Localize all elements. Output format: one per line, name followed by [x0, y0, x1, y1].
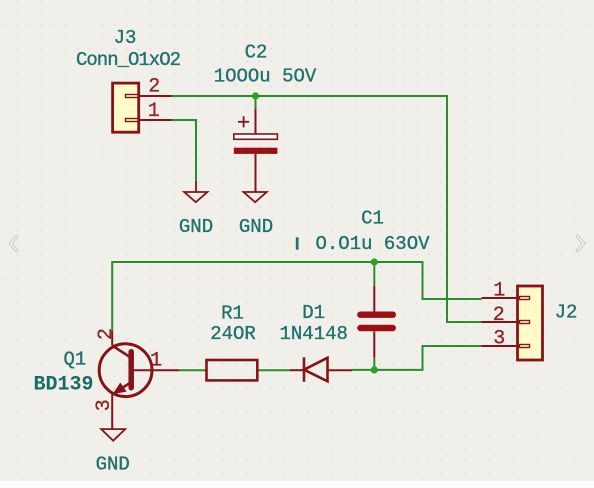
svg-text:2: 2 — [95, 328, 118, 340]
capacitor C1 bottom plate — [360, 325, 392, 331]
capacitor C2 plus sign — [238, 116, 249, 127]
svg-text:2: 2 — [493, 304, 505, 327]
svg-text:Conn_O1xO2: Conn_O1xO2 — [76, 49, 181, 71]
svg-text:GND: GND — [239, 216, 273, 238]
svg-text:1: 1 — [150, 350, 162, 373]
transistor Q1 collector pin — [111, 331, 113, 346]
svg-text:O.O1u 63OV: O.O1u 63OV — [315, 233, 430, 255]
ground symbol GND2 (from C2) — [244, 192, 267, 202]
capacitor C1 bottom pin — [373, 332, 375, 358]
wire: C2 top stub — [255, 96, 257, 109]
svg-text:C2: C2 — [245, 42, 268, 64]
transistor Q1 emitter pin — [111, 394, 113, 429]
connector J3 pin 2 stub — [126, 95, 139, 98]
wire: Q1 base to R1 — [179, 369, 207, 371]
capacitor C2 bottom pin — [255, 154, 257, 192]
connector J2 pin 2 lead — [482, 321, 518, 323]
diode D1 right pin — [328, 369, 353, 371]
svg-text:1N4148: 1N4148 — [279, 323, 347, 345]
capacitor C1 top plate — [360, 312, 392, 318]
wire: mid horizontal net — [112, 262, 481, 331]
connector J3 pin 2 lead — [139, 95, 172, 97]
connector J2 pin 1 stub — [520, 297, 530, 300]
wire: C1 bottom stub — [373, 357, 375, 370]
svg-text:2: 2 — [148, 76, 160, 99]
transistor Q1 collector diagonal — [112, 346, 130, 358]
svg-text:C1: C1 — [361, 208, 384, 230]
transistor Q1 emitter arrow — [114, 383, 126, 393]
capacitor C2 top pin — [255, 109, 257, 135]
capacitor C2 bottom plate — [234, 148, 278, 154]
svg-text:3: 3 — [93, 399, 116, 411]
connector J3 body — [113, 83, 139, 132]
svg-text:3: 3 — [493, 328, 505, 351]
junction at C2 top — [252, 92, 259, 99]
svg-text:GND: GND — [96, 454, 130, 476]
capacitor C2 top plate — [234, 134, 278, 139]
transistor Q1 emitter diagonal — [113, 383, 131, 395]
connector J2 body — [518, 286, 543, 360]
svg-text:J2: J2 — [555, 302, 578, 324]
svg-text:GND: GND — [179, 216, 213, 238]
diode D1 left pin — [290, 369, 304, 371]
ground symbol GND3 (from Q1 emitter) — [101, 429, 125, 441]
capacitor C1 top pin — [373, 286, 375, 312]
text cursor mark — [296, 238, 298, 250]
transistor Q1 base bar — [128, 352, 134, 388]
svg-text:1: 1 — [148, 100, 160, 123]
svg-text:Q1: Q1 — [63, 349, 86, 371]
ground symbol GND1 (from J3 pin1) — [184, 181, 207, 202]
diode D1 cathode bar — [303, 357, 306, 382]
wire: R1 to D1 — [257, 369, 290, 371]
svg-text:1: 1 — [493, 280, 505, 303]
connector J2 pin 2 stub — [520, 321, 530, 324]
connector J3 pin 1 stub — [126, 119, 139, 122]
svg-text:R1: R1 — [221, 303, 244, 325]
transistor Q1 body circle — [99, 344, 152, 397]
connector J2 pin 1 lead — [482, 297, 518, 299]
svg-text:J3: J3 — [114, 27, 137, 49]
connector J2 pin 3 lead — [482, 345, 518, 347]
connector J2 pin 3 stub — [520, 345, 530, 348]
svg-text:1OOOu 5OV: 1OOOu 5OV — [214, 66, 317, 88]
svg-text:D1: D1 — [302, 302, 325, 324]
svg-text:BD139: BD139 — [33, 374, 93, 397]
right nav chevron — [578, 237, 584, 251]
junction at C1 bottom — [371, 366, 378, 373]
wire: C1 top stub — [373, 262, 375, 286]
resistor R1 — [207, 360, 258, 380]
left nav chevron — [11, 237, 17, 251]
diode D1 triangle — [304, 358, 328, 382]
svg-text:24OR: 24OR — [210, 323, 256, 345]
wire: J3 pin1 to GND — [171, 120, 196, 181]
wire: J3 pin2 to top net — [171, 96, 482, 322]
connector J3 pin 1 lead — [139, 119, 172, 121]
junction at C1 top — [371, 258, 378, 265]
transistor Q1 base lead — [134, 369, 180, 371]
wire: D1 to J2 pin3 — [352, 346, 482, 370]
